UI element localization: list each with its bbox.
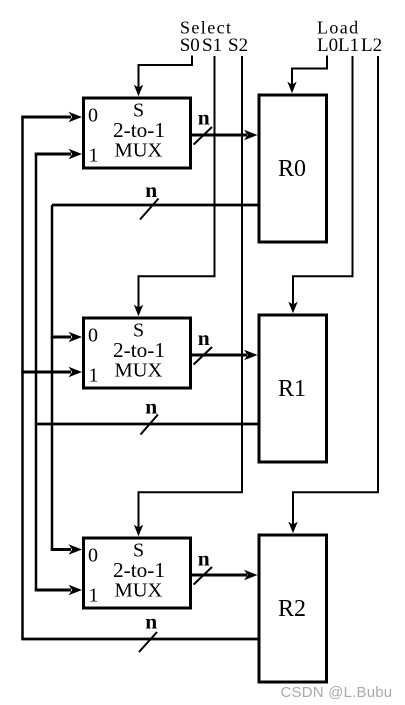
svg-text:L0: L0 (317, 35, 338, 56)
svg-text:0: 0 (88, 545, 98, 567)
svg-text:2-to-1: 2-to-1 (113, 338, 165, 362)
wire R2 output vertical (x22 from MUX1 in0 down to R2 feedback) (21, 117, 24, 639)
bus slash MUX3 output (194, 567, 212, 585)
wire S2 to MUX3 select (134, 56, 242, 536)
wire S0 to MUX1 select (134, 56, 192, 97)
svg-text:1: 1 (89, 365, 99, 387)
bus slash MUX1 output (194, 127, 212, 145)
wire R1 output vertical (x36 from MUX1 in1 down to MUX3 in1) (35, 154, 38, 590)
bus slash MUX2 output (194, 347, 212, 365)
wire R1 feedback bus (36, 423, 258, 426)
register R0 (259, 95, 327, 242)
wire L2 to R2 load (288, 56, 378, 533)
svg-text:L2: L2 (361, 35, 382, 56)
wire S1 to MUX2 select (134, 56, 215, 316)
register R1 (259, 315, 327, 462)
register R2 (259, 535, 327, 682)
svg-text:1: 1 (89, 585, 99, 607)
bus slash R1 feedback (141, 415, 159, 435)
svg-text:n: n (198, 106, 210, 130)
wire R2 feedback bus (21, 638, 258, 641)
svg-text:n: n (198, 547, 210, 571)
wire L0 to R0 load (287, 56, 327, 94)
wire R0 feedback bus (52, 204, 258, 207)
wire MUX1 input 1 (35, 149, 82, 160)
svg-text:1: 1 (89, 145, 99, 167)
wire MUX1 input 0 (21, 112, 82, 123)
wire MUX3 input 1 (35, 585, 82, 596)
svg-text:0: 0 (88, 105, 98, 127)
wire MUX3 input 0 (51, 544, 82, 555)
svg-text:2-to-1: 2-to-1 (113, 558, 165, 582)
svg-text:2-to-1: 2-to-1 (113, 118, 165, 142)
svg-text:R2: R2 (278, 596, 306, 622)
svg-text:MUX: MUX (115, 140, 163, 162)
wire MUX2 output bus to R1 (192, 350, 258, 361)
svg-text:0: 0 (88, 325, 98, 347)
mux U1 (2-to-1 MUX top) (84, 98, 191, 168)
svg-text:n: n (198, 326, 210, 350)
wire MUX3 output bus to R2 (192, 570, 258, 581)
svg-text:MUX: MUX (115, 360, 163, 382)
mux U3 (2-to-1 MUX bottom) (84, 538, 191, 608)
svg-text:L1: L1 (338, 35, 359, 56)
bus slash R2 feedback (139, 632, 157, 652)
svg-text:S0: S0 (180, 35, 200, 56)
svg-text:R0: R0 (278, 156, 306, 182)
svg-text:CSDN @L.Bubu: CSDN @L.Bubu (281, 684, 393, 701)
svg-text:MUX: MUX (115, 580, 163, 602)
svg-text:n: n (145, 178, 157, 202)
wire MUX2 input 0 (51, 332, 82, 343)
bus slash R0 feedback (140, 199, 159, 220)
wire MUX1 output bus to R0 (192, 130, 258, 141)
wire R0 output vertical (x52 from R0 feedback down to MUX3 in0) (51, 205, 54, 550)
svg-text:S1: S1 (202, 35, 222, 56)
svg-text:S2: S2 (228, 35, 248, 56)
wire L1 to R1 load (288, 56, 352, 313)
svg-text:n: n (145, 395, 157, 419)
mux U2 (2-to-1 MUX middle) (84, 318, 191, 388)
svg-text:n: n (145, 610, 157, 634)
wire MUX2 input 1 (21, 367, 82, 378)
svg-text:R1: R1 (278, 376, 306, 402)
